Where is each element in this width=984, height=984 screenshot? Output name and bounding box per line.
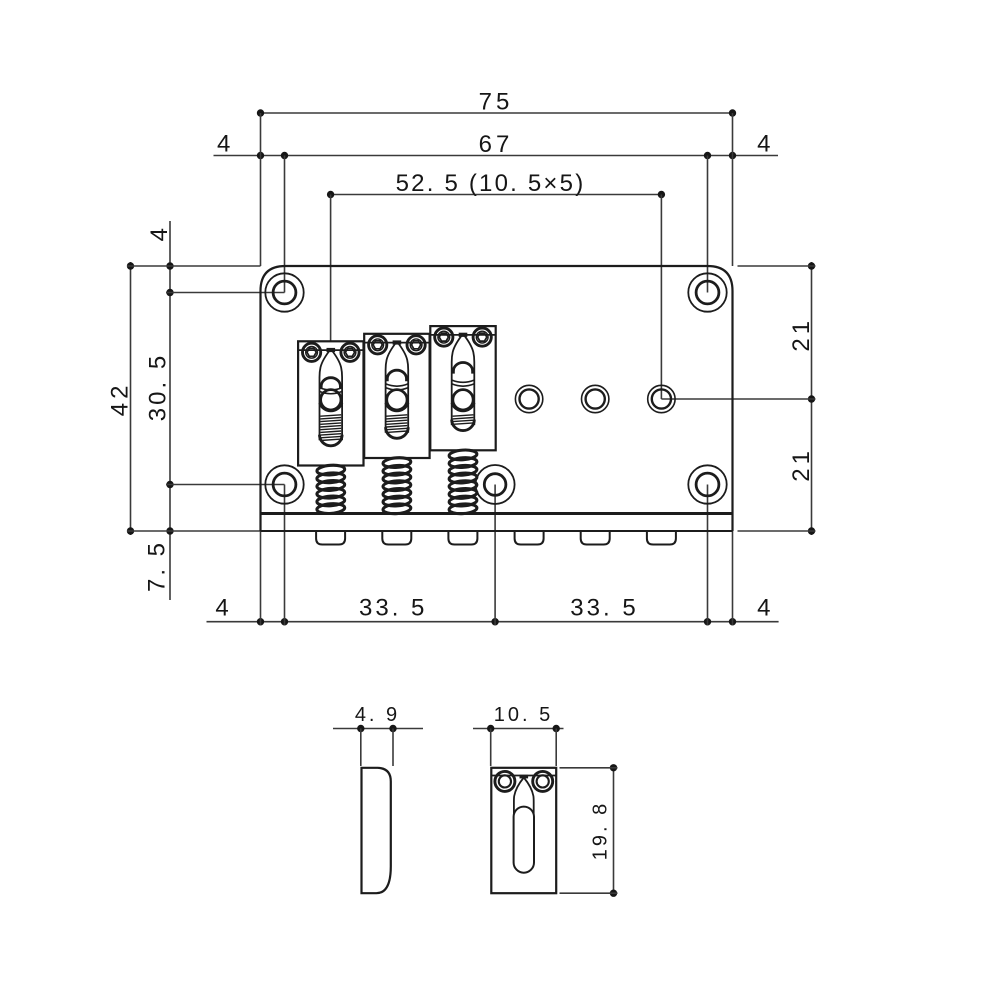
extension 75 left: [260, 113, 262, 266]
saddle 1 hex screw left: [303, 343, 321, 361]
left dim vertical 4/30.5/7.5: [169, 221, 171, 600]
bottom ext hole left: [284, 485, 286, 626]
svg-text:19. 8: 19. 8: [590, 801, 612, 860]
saddle 1 screw threads: [320, 415, 341, 441]
saddle 3 string ball circle: [453, 390, 473, 410]
svg-text:4: 4: [757, 131, 774, 158]
bottom dim line 4/33.5/33.5/4: [207, 621, 779, 623]
right ext horiz flange bottom: [738, 530, 816, 532]
saddle 2 cup arc: [385, 403, 408, 412]
flange tab 2: [382, 531, 411, 545]
bottom ext plate left edge: [260, 531, 262, 626]
flange tab 1: [316, 531, 345, 545]
svg-text:7. 5: 7. 5: [144, 540, 171, 592]
saddle 3 hex screw right: [473, 328, 491, 346]
svg-text:33. 5: 33. 5: [570, 594, 638, 621]
saddle 1 slot bottom cap: [320, 435, 343, 446]
svg-text:4: 4: [217, 131, 234, 158]
svg-text:4: 4: [215, 594, 232, 621]
svg-text:42: 42: [107, 382, 134, 417]
saddle 2 screw threads: [387, 415, 408, 433]
flange tab 3: [448, 531, 477, 545]
saddle 2 string ball circle: [387, 390, 407, 410]
saddle top view inner line: [491, 775, 556, 777]
saddle 3 barrel lower arc: [452, 380, 474, 382]
svg-text:75: 75: [479, 89, 514, 116]
saddle 1 cup arc: [319, 403, 342, 412]
side profile view dim 4.9: [333, 728, 423, 730]
saddle 2 barrel lower arc: [386, 384, 408, 386]
bridge plate outline: [261, 266, 733, 514]
saddle 3 barrel arch: [453, 363, 472, 374]
svg-text:30. 5: 30. 5: [145, 353, 172, 421]
saddle 3 body: [430, 326, 495, 450]
saddle 1 hex screw right: [341, 343, 359, 361]
svg-text:10. 5: 10. 5: [494, 704, 553, 726]
saddle 1 top inner line: [298, 349, 363, 351]
saddle 2 intonation spring: [383, 457, 411, 469]
flange tab 6: [647, 531, 676, 545]
right ext horiz middle row: [661, 398, 815, 400]
mounting hole 3: [265, 465, 303, 503]
string hole 4: [515, 385, 542, 412]
extension 67 left: [284, 156, 286, 293]
saddle 3 slot bottom cap: [452, 420, 475, 431]
saddle 2 string slot teardrop: [386, 342, 409, 433]
saddle side profile shape: [362, 768, 391, 893]
bottom ext hole middle: [494, 485, 496, 626]
extension 52.5 right: [660, 195, 662, 400]
extension 67 right: [707, 156, 709, 293]
saddle top view teardrop: [514, 778, 534, 815]
flange right edge: [731, 514, 733, 532]
saddle 2 hex screw left: [369, 336, 387, 354]
left dim vertical 42: [130, 262, 132, 535]
saddle 1 string ball circle: [321, 390, 341, 410]
svg-text:4: 4: [146, 224, 173, 241]
bottom middle mounting hole: [476, 465, 515, 504]
saddle 3 top inner line: [430, 334, 495, 336]
right ext horiz plate top: [738, 265, 816, 267]
saddle 3 hex screw left: [435, 328, 453, 346]
saddle 1 intonation spring: [317, 464, 345, 476]
left ext horiz hole bottom center: [166, 484, 285, 486]
saddle top view slot capsule: [514, 807, 534, 873]
saddle top view ring right: [533, 771, 553, 791]
saddle 2 barrel arch: [387, 370, 406, 381]
dim line 67 with side 4s: [214, 155, 779, 157]
saddle 3 screw threads: [453, 415, 474, 425]
svg-text:21: 21: [788, 447, 815, 482]
saddle 3 cup arc: [451, 403, 474, 412]
saddle 2 body: [364, 334, 429, 458]
saddle top view dim 10.5: [473, 728, 564, 730]
saddle 1 barrel lower arc: [320, 388, 342, 390]
saddle top view body: [491, 768, 556, 893]
left ext horiz hole top center: [166, 292, 285, 294]
dim 19.8: [613, 768, 615, 893]
saddle 3 string slot teardrop: [452, 334, 475, 425]
saddle 2 hex screw right: [407, 336, 425, 354]
saddle 2 slot bottom cap: [386, 427, 409, 438]
saddle 2 string notch: [393, 340, 402, 344]
saddle 1 barrel arch: [321, 378, 340, 389]
mounting hole 1: [265, 273, 303, 311]
saddle 1 string slot teardrop: [320, 349, 343, 440]
flange tab 5: [581, 531, 610, 545]
plate bottom face line: [261, 512, 733, 515]
saddle top view notch: [520, 775, 529, 779]
saddle 1 string notch: [327, 348, 336, 352]
saddle 3 intonation spring: [449, 449, 477, 461]
saddle 1 body: [298, 341, 363, 465]
saddle 2 top inner line: [364, 342, 429, 344]
flange left edge: [259, 514, 261, 532]
flange bottom line: [261, 530, 733, 532]
svg-text:52. 5 (10. 5×5): 52. 5 (10. 5×5): [396, 170, 586, 197]
left ext horiz plate top: [127, 265, 261, 267]
dim line 52.5: [331, 194, 662, 196]
dim line 75 top: [261, 112, 733, 114]
svg-text:67: 67: [479, 131, 514, 158]
bottom ext plate right edge: [732, 531, 734, 626]
left ext horiz flange bottom: [127, 530, 261, 532]
string hole 6: [648, 385, 675, 412]
mounting hole 4: [688, 465, 726, 503]
right dim vertical 21/21: [811, 262, 813, 535]
svg-text:4. 9: 4. 9: [355, 704, 400, 726]
mounting hole 2: [688, 273, 726, 311]
bottom ext hole right: [707, 485, 709, 626]
saddle top view ring left: [495, 771, 515, 791]
svg-text:4: 4: [757, 594, 774, 621]
saddle 3 string notch: [459, 333, 468, 337]
svg-text:21: 21: [788, 317, 815, 352]
string hole 5: [582, 385, 609, 412]
flange tab 4: [515, 531, 544, 545]
extension 52.5 left: [330, 195, 332, 400]
extension 75 right: [732, 113, 734, 266]
svg-text:33. 5: 33. 5: [359, 594, 427, 621]
